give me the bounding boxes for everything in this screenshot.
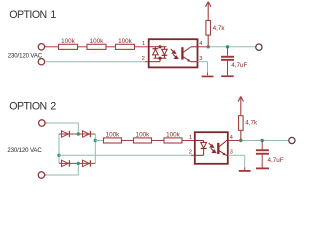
OK2 internal: pin1 rail bbox=[195, 140, 204, 142]
OK2 internal: LED (down) bbox=[201, 141, 207, 156]
wire R5 to R6 bbox=[122, 140, 134, 142]
bridge bottom row wire bbox=[59, 162, 95, 164]
output terminal pad (option 2) bbox=[289, 137, 295, 143]
resistor R5 100k bbox=[104, 138, 122, 143]
svg-text:3: 3 bbox=[230, 150, 233, 156]
OK1 internal: stub to pin2 bbox=[159, 58, 161, 62]
pin 3 wire to ground bbox=[198, 61, 208, 63]
net pin4 to output bbox=[208, 46, 255, 48]
wire R3 to opto pin 1 bbox=[135, 46, 149, 48]
OK1 internal: LED B (down) bbox=[162, 47, 168, 58]
resistor R3 100k bbox=[116, 44, 135, 49]
optocoupler OK2 box bbox=[195, 132, 228, 164]
svg-text:1: 1 bbox=[189, 135, 192, 141]
ground under C2 bbox=[256, 168, 269, 170]
capacitor C1 4,7uF bbox=[221, 56, 234, 61]
bridge left rail bbox=[58, 134, 60, 163]
svg-text:100k: 100k bbox=[136, 132, 151, 139]
OK1 internal: pin2 rail bbox=[149, 61, 160, 63]
terminal pad X1-1 (option 1 top input) bbox=[38, 44, 44, 50]
pin 4 stub bbox=[228, 140, 240, 142]
OK1 internal: bottom rail bbox=[154, 57, 167, 59]
svg-text:OPTION 2: OPTION 2 bbox=[9, 101, 56, 113]
svg-text:100k: 100k bbox=[118, 38, 133, 45]
wire terminal 2 to opto pin 2 bbox=[45, 61, 145, 63]
diode D3 bbox=[62, 160, 70, 166]
svg-text:OPTION 1: OPTION 1 bbox=[9, 9, 56, 21]
svg-text:2: 2 bbox=[189, 150, 192, 156]
bridge top row wire bbox=[59, 133, 95, 135]
ground under C1 bbox=[221, 75, 234, 77]
OK1 internal: pin1 rail bbox=[149, 46, 166, 48]
net pin4 to output bbox=[240, 140, 289, 142]
resistor R2 100k bbox=[87, 44, 106, 49]
pin 4 stub bbox=[198, 46, 209, 48]
svg-text:4,7k: 4,7k bbox=[245, 120, 258, 127]
junction at C1 bbox=[226, 45, 229, 48]
pin 3 wire to ground (option2) bbox=[228, 154, 245, 156]
svg-text:100k: 100k bbox=[90, 38, 105, 45]
wire terminal to R1 bbox=[45, 46, 59, 48]
OK1 internal: light arrows bbox=[171, 49, 178, 58]
power arrow VCC (option2) bbox=[238, 96, 243, 101]
svg-text:230/120 VAC: 230/120 VAC bbox=[8, 53, 43, 59]
OK1 internal: node dot bottom bbox=[158, 57, 161, 60]
resistor R1 100k bbox=[59, 44, 78, 49]
terminal pad X2-1 (option 2 top input) bbox=[39, 120, 45, 126]
resistor R8 4,7k (vertical) bbox=[239, 97, 244, 140]
ground under pin 3 (option1) bbox=[202, 76, 214, 78]
wire R6 to R7 bbox=[152, 140, 165, 142]
junction DC plus on right rail bbox=[94, 139, 97, 142]
svg-text:3: 3 bbox=[199, 56, 202, 62]
svg-text:100k: 100k bbox=[106, 132, 121, 139]
capacitor C2 4,7uF bbox=[256, 149, 269, 154]
net DC plus to R5 bbox=[95, 140, 103, 142]
wire R1 to R2 bbox=[78, 46, 88, 48]
junction at R8 bbox=[239, 139, 242, 142]
OK1 internal: LED A (up) bbox=[153, 47, 159, 58]
diode D1 bbox=[62, 131, 70, 137]
svg-text:1: 1 bbox=[142, 41, 145, 47]
OK1 internal: node dot top bbox=[158, 45, 161, 48]
OK1 internal: phototransistor bbox=[182, 47, 197, 62]
resistor R7 100k bbox=[164, 138, 182, 143]
svg-text:4,7uF: 4,7uF bbox=[268, 157, 284, 164]
junction bottom AC node bbox=[77, 162, 80, 165]
pin 2 stub bbox=[191, 154, 195, 156]
diode D4 bbox=[83, 160, 91, 166]
OK2 internal: pin2 rail bbox=[195, 154, 204, 156]
svg-text:100k: 100k bbox=[166, 132, 181, 139]
OK2 internal: light arrows bbox=[209, 143, 216, 152]
svg-text:230/120 VAC: 230/120 VAC bbox=[7, 148, 42, 154]
diode D2 bbox=[83, 131, 91, 137]
OK2 internal: phototransistor bbox=[218, 141, 228, 156]
junction at C2 bbox=[261, 139, 264, 142]
wire R7 to opto pin 1 bbox=[182, 140, 195, 142]
bridge right rail bbox=[94, 134, 96, 163]
terminal pad X2-2 (option 2 bottom input) bbox=[38, 172, 44, 178]
wire R2 to R3 bbox=[106, 46, 116, 48]
junction top AC node bbox=[77, 132, 80, 135]
svg-text:100k: 100k bbox=[61, 38, 76, 45]
junction DC minus on left rail bbox=[57, 154, 60, 157]
net DC minus to opto pin 2 bbox=[59, 154, 191, 156]
wire bottom input to bridge bbox=[45, 174, 47, 176]
svg-text:4,7k: 4,7k bbox=[213, 25, 226, 32]
ground under pin 3 (option2) bbox=[239, 170, 251, 172]
resistor R4 4,7k (vertical) bbox=[206, 2, 211, 46]
output terminal pad (option 1) bbox=[256, 44, 262, 50]
op to coupler OK1 box bbox=[149, 39, 198, 67]
terminal pad X1-2 (option 1 bottom input) bbox=[38, 59, 44, 65]
wire top input to bridge bbox=[45, 122, 47, 124]
power arrow VCC (option1) bbox=[206, 2, 211, 7]
pin 2 stub bbox=[145, 61, 149, 63]
resistor R6 100k bbox=[134, 138, 152, 143]
junction at R4 bbox=[207, 45, 210, 48]
svg-text:4,7uF: 4,7uF bbox=[231, 62, 247, 69]
